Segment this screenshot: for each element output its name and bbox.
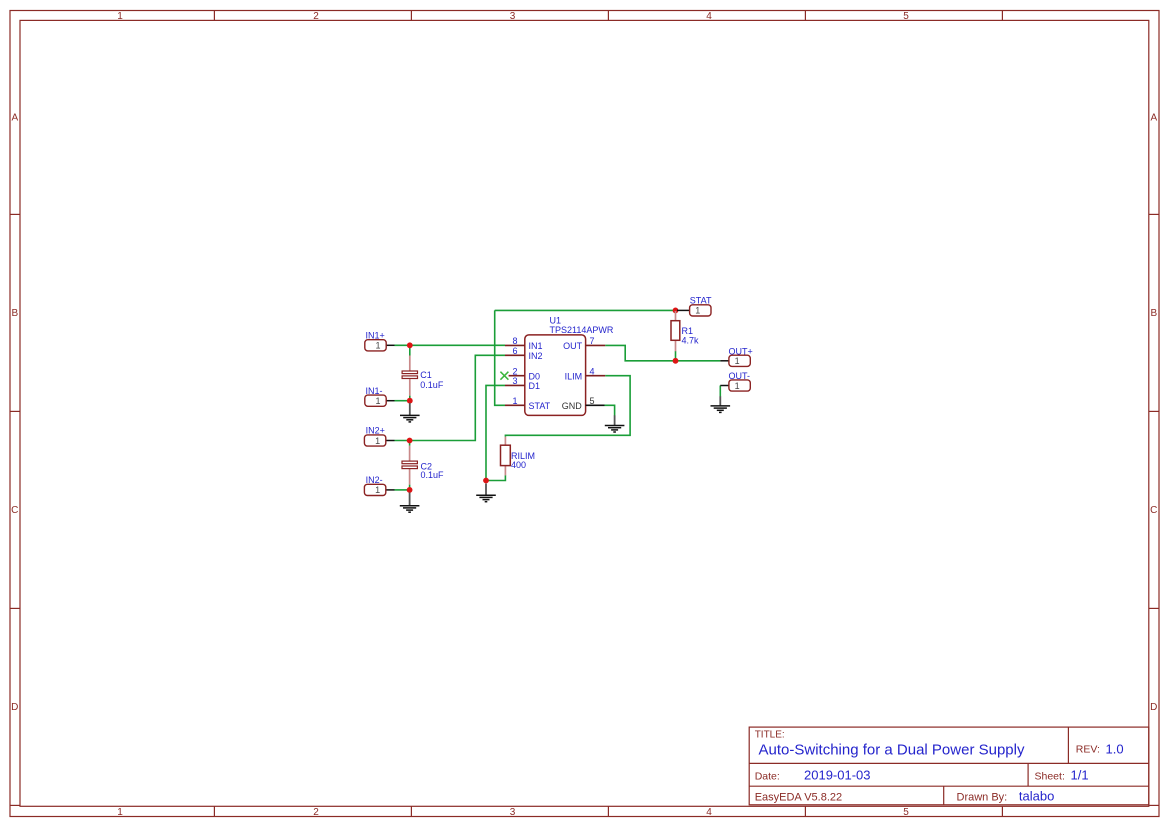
svg-text:talabo: talabo [1019,788,1054,803]
resistor RILIM [501,437,511,476]
svg-text:TPS2114APWR: TPS2114APWR [550,325,614,335]
svg-text:4: 4 [706,807,712,818]
svg-text:STAT: STAT [529,401,551,411]
svg-text:Date:: Date: [755,771,780,783]
port IN2- [364,484,385,495]
svg-text:1: 1 [375,436,380,446]
junction IN1-/C1/ground [407,398,413,404]
svg-text:1: 1 [375,396,380,406]
wire top net STAT horizontal [495,309,676,311]
wire U1 pin 5 GND to ground [605,405,615,415]
no-connect X on pin 2 [500,372,508,380]
port STAT [690,305,711,316]
svg-text:R1: R1 [682,326,694,336]
port OUT+ pin [720,360,729,362]
svg-text:EasyEDA V5.8.22: EasyEDA V5.8.22 [755,791,842,803]
svg-text:1: 1 [375,485,380,495]
svg-text:1: 1 [375,341,380,351]
svg-text:OUT: OUT [563,341,583,351]
U1 pin 7 OUT [586,344,606,346]
wire R1 bottom stub [675,351,677,361]
port OUT+ [729,355,750,366]
port IN2+ pin [385,440,394,442]
svg-text:IN1+: IN1+ [366,331,385,341]
U1 pin 6 IN2 [505,354,525,356]
svg-text:2: 2 [313,11,319,22]
svg-text:STAT: STAT [690,295,712,305]
svg-text:2019-01-03: 2019-01-03 [804,768,871,783]
wire C1 top stub [409,345,411,355]
port IN1- pin [386,400,394,402]
svg-text:5: 5 [590,396,595,406]
svg-text:A: A [11,113,18,124]
svg-text:B: B [11,308,18,319]
svg-text:Sheet:: Sheet: [1035,771,1065,783]
svg-text:C1: C1 [420,370,432,380]
svg-text:1/1: 1/1 [1071,768,1089,783]
U1 pin 5 GND [586,404,605,406]
wire STAT vertical to U1 pin 1 [495,310,505,405]
svg-text:IN2-: IN2- [366,475,383,485]
resistor R1 [671,311,680,351]
svg-text:REV:: REV: [1076,744,1100,756]
IC U1 TPS2114APWR body [525,335,586,416]
wire C2 bottom stub [409,485,411,490]
U1 pin 1 STAT [505,404,525,406]
svg-text:IN1: IN1 [529,341,543,351]
svg-text:7: 7 [590,336,595,346]
wire U1 pin 4 ILIM to RILIM top [505,376,630,437]
svg-text:B: B [1150,308,1157,319]
port OUT- [729,380,750,391]
port OUT- pin [720,385,729,387]
port IN2+ [364,435,385,446]
port STAT pin [677,309,690,311]
wire IN1+ to U1 pin 8 [395,344,506,346]
wire U1 pin 7 OUT to OUT+ [605,345,720,360]
svg-text:5: 5 [903,11,909,22]
svg-text:Drawn By:: Drawn By: [957,791,1008,803]
svg-text:A: A [1150,113,1157,124]
svg-text:1: 1 [735,381,740,391]
svg-text:1: 1 [695,306,700,316]
svg-text:U1: U1 [550,315,562,325]
junction IN2+/C2 [407,438,413,444]
svg-text:1: 1 [512,396,517,406]
port IN1+ pin [386,344,394,346]
svg-text:8: 8 [512,336,517,346]
svg-text:3: 3 [512,376,517,386]
port IN2- pin [385,489,394,491]
svg-text:1.0: 1.0 [1106,741,1124,756]
ground at U1 pin 5 [605,415,625,432]
ground under IN1- [400,403,420,422]
svg-text:IN1-: IN1- [366,386,383,396]
svg-text:2: 2 [512,366,517,376]
svg-text:5: 5 [903,807,909,818]
svg-text:6: 6 [512,346,517,356]
ground under OUT- [711,396,731,412]
junction D1/RILIM/ground [483,478,489,484]
port IN1- [365,395,386,406]
svg-text:Auto-Switching for a Dual Powe: Auto-Switching for a Dual Power Supply [759,742,1025,759]
wire C1 bottom stub [409,396,411,401]
svg-text:1: 1 [117,11,123,22]
svg-text:TITLE:: TITLE: [755,730,785,741]
junction OUT/R1/OUT+ [673,358,679,364]
port IN1+ [365,340,386,351]
wire OUT- to ground [719,386,721,397]
ground under IN2- [400,493,420,513]
svg-text:GND: GND [562,401,583,411]
wire IN2- to junction [395,489,410,491]
svg-text:2: 2 [313,807,319,818]
capacitor C1 [402,356,417,396]
svg-text:D: D [11,702,18,713]
U1 pin 4 ILIM [586,375,606,377]
svg-text:0.1uF: 0.1uF [420,380,444,390]
svg-text:IN2: IN2 [529,351,543,361]
svg-text:0.1uF: 0.1uF [421,470,445,480]
svg-text:4: 4 [590,366,595,376]
svg-text:3: 3 [510,807,516,818]
U1 pin 8 IN1 [505,344,525,346]
svg-text:4: 4 [706,11,712,22]
svg-text:OUT-: OUT- [729,371,751,381]
svg-text:400: 400 [511,460,526,470]
junction IN1+/C1 [407,342,413,348]
svg-text:IN2+: IN2+ [366,426,385,436]
wire IN2+ to U1 pin 6 [395,355,506,440]
svg-text:ILIM: ILIM [565,371,583,381]
U1 pin 3 D1 [505,384,525,386]
svg-text:C: C [1150,505,1157,516]
svg-text:C: C [11,505,18,516]
U1 pin 2 D0 [509,375,525,377]
svg-text:D0: D0 [529,371,541,381]
ground under RILIM junction [476,484,496,502]
svg-text:4.7k: 4.7k [682,335,700,345]
capacitor C2 [402,446,417,485]
svg-text:1: 1 [117,807,123,818]
svg-text:1: 1 [735,356,740,366]
wire IN1- to junction [395,400,410,402]
junction IN2-/C2/ground [407,487,413,493]
junction STAT/R1 [673,308,679,314]
wire C2 top stub [409,441,411,446]
svg-text:D: D [1150,702,1157,713]
svg-text:OUT+: OUT+ [729,347,753,357]
wire U1 pin 3 D1 to RILIM bottom [486,385,505,480]
svg-text:D1: D1 [529,381,541,391]
svg-text:3: 3 [510,11,516,22]
